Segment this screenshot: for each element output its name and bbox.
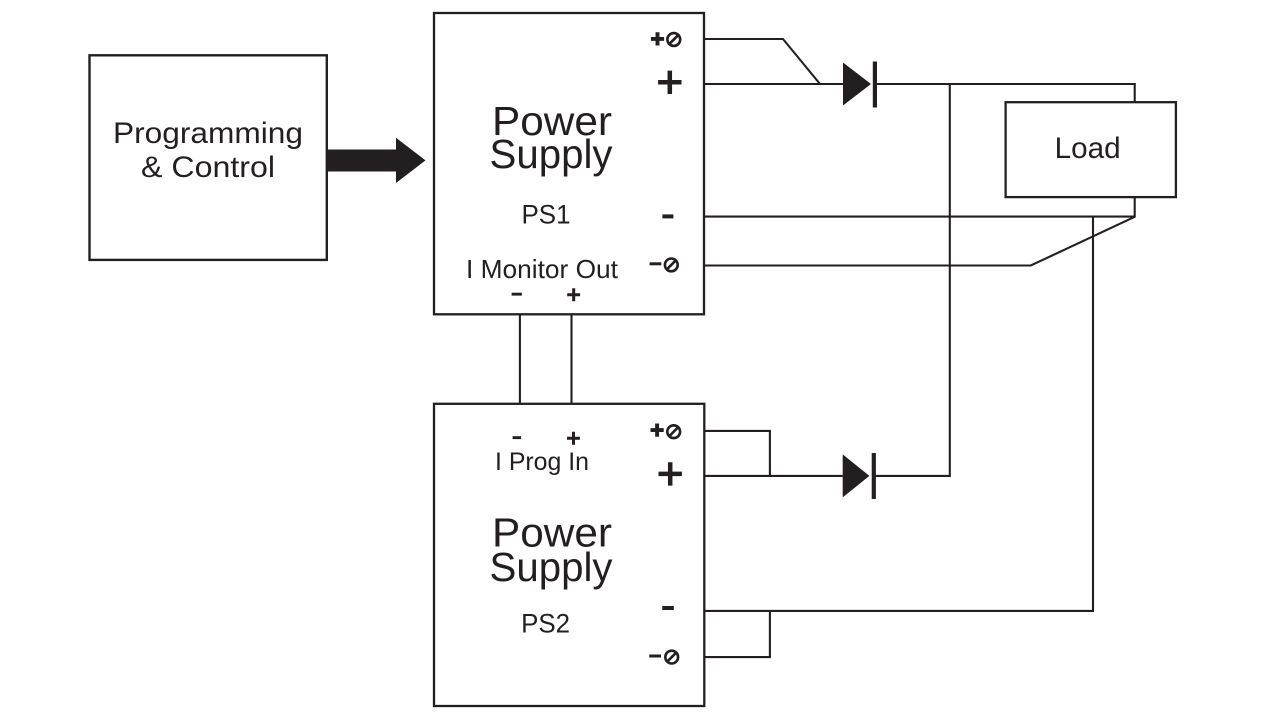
diode CR2 triangle	[843, 454, 870, 497]
svg-text:I Monitor Out: I Monitor Out	[466, 254, 619, 284]
wire PS2 -S sense jumper to - output	[704, 611, 770, 657]
wire PS1 + output to diode CR1 anode	[704, 83, 843, 85]
wire PS1 +S sense output to + wire	[704, 39, 820, 84]
arrow Programming & Control to PS1	[327, 138, 426, 183]
power supply PS2 box	[434, 404, 704, 706]
svg-text:Supply: Supply	[490, 544, 613, 590]
pin PS2 -S sense circle	[665, 651, 678, 664]
svg-text:PS2: PS2	[521, 608, 570, 638]
pin PS2 -	[662, 606, 674, 610]
pin PS2 I Prog In -	[513, 436, 522, 439]
wire load - to PS2 - bus vertical	[1092, 217, 1094, 611]
pin PS1 -S minus	[650, 262, 662, 265]
power supply PS1 box	[434, 13, 704, 314]
wire I Monitor Out + to I Prog In +	[570, 314, 572, 404]
wire diode-output junction vertical (CR1/CR2 cathodes)	[949, 83, 951, 476]
diode CR2 cathode bar	[872, 453, 876, 499]
svg-text:Load: Load	[1055, 132, 1121, 165]
svg-text:PS1: PS1	[522, 199, 571, 229]
wire PS1 - output to load - corner	[704, 216, 1136, 218]
diode CR1 triangle	[843, 63, 871, 106]
wire PS2 + output to diode CR2 anode	[704, 475, 843, 477]
wire CR1 cathode to load + corner	[877, 83, 1136, 85]
box Programming & Control	[90, 55, 327, 260]
load box	[1006, 102, 1176, 197]
pin PS1 I Monitor Out -	[512, 293, 522, 296]
pin PS1 +S plus	[651, 32, 664, 45]
pin PS1 -S sense circle	[665, 259, 678, 272]
wire load + vertical drop into Load box	[1134, 83, 1136, 217]
svg-text:Programming: Programming	[113, 117, 303, 150]
wire PS2 +S sense jumper to + output	[704, 431, 770, 476]
pin PS2 I Prog In +	[567, 432, 580, 445]
wire PS2 - output to load - bus	[704, 610, 1094, 612]
wire I Monitor Out - to I Prog In -	[519, 314, 521, 404]
svg-text:& Control: & Control	[141, 151, 275, 184]
svg-text:I Prog In: I Prog In	[495, 448, 589, 476]
pin PS2 +	[659, 462, 682, 485]
pin PS1 +	[658, 71, 681, 94]
pin PS2 +S plus	[651, 424, 664, 437]
pin PS1 +S sense circle	[667, 33, 680, 46]
pin PS2 +S sense circle	[667, 425, 680, 438]
pin PS2 -S minus	[649, 655, 661, 658]
pin PS1 -	[662, 214, 673, 218]
wire CR2 cathode to junction vertical	[876, 475, 951, 477]
svg-text:Supply: Supply	[490, 131, 613, 177]
diode CR1 cathode bar	[873, 62, 877, 108]
wire PS1 -S sense to load - corner (diagonal)	[704, 217, 1135, 266]
pin PS1 I Monitor Out +	[567, 288, 580, 301]
